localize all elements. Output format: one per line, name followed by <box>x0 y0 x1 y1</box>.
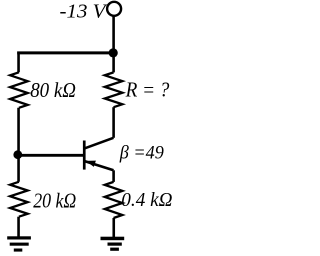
svg-text:-13 V: -13 V <box>60 1 109 23</box>
svg-text:0.4 kΩ: 0.4 kΩ <box>121 189 172 211</box>
node A junction dot <box>109 48 118 57</box>
transistor Q1 emitter arrow (PNP) <box>86 161 96 167</box>
transistor Q1 base bar <box>83 141 86 170</box>
transistor Q1 collector lead <box>85 138 114 149</box>
resistor R4 0.4 kOhm <box>105 182 123 218</box>
svg-text:R = ?: R = ? <box>125 78 170 102</box>
svg-text:β =49: β =49 <box>119 143 164 164</box>
wire: terminal to node A <box>112 16 115 72</box>
wire: R4 to ground <box>112 218 115 237</box>
wire: R to collector <box>112 107 115 138</box>
wire: left vertical to R1 <box>17 52 20 73</box>
svg-text:80 kΩ: 80 kΩ <box>30 78 76 102</box>
resistor R1 80 kOhm <box>10 72 28 108</box>
wire: emitter to R4 <box>112 170 115 182</box>
ground right <box>101 237 125 241</box>
transistor Q1 emitter lead <box>85 161 114 170</box>
wire: top horizontal <box>17 51 113 54</box>
wire: R2 to ground <box>17 217 20 237</box>
wire: R1 to node B <box>17 108 20 182</box>
resistor R2 20 kOhm <box>10 182 28 217</box>
supply terminal (-13 V) <box>107 2 121 16</box>
svg-text:20 kΩ: 20 kΩ <box>33 189 76 213</box>
node B junction dot <box>13 150 22 159</box>
resistor R collector R = ? <box>105 72 123 107</box>
wire: base wire node B to Q1 <box>19 154 84 157</box>
ground left <box>7 236 31 239</box>
